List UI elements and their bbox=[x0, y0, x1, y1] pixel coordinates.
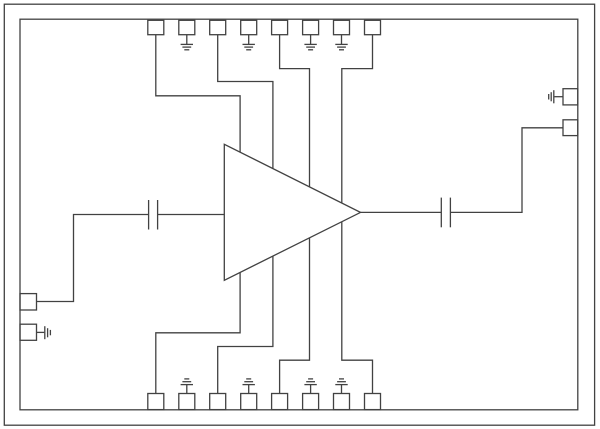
pad P10 bbox=[334, 394, 350, 410]
pad GND-L bbox=[20, 324, 37, 340]
wire bbox=[156, 35, 240, 153]
pad P11 bbox=[303, 394, 319, 410]
ground bbox=[37, 326, 51, 339]
wire bbox=[450, 128, 563, 213]
wire bbox=[218, 256, 273, 393]
pad P13 bbox=[241, 394, 257, 410]
wire bbox=[342, 222, 373, 394]
pad P3 bbox=[210, 20, 226, 34]
ground bbox=[304, 35, 316, 50]
wire bbox=[218, 35, 273, 169]
pad P6 bbox=[303, 20, 319, 34]
capacitor C2 bbox=[441, 198, 450, 228]
pad P1 bbox=[148, 20, 164, 34]
pad P9 bbox=[365, 394, 381, 410]
capacitor C1 bbox=[149, 200, 158, 230]
ground bbox=[335, 379, 347, 394]
pad IN bbox=[20, 294, 37, 310]
pad P5 bbox=[272, 20, 288, 34]
wire bbox=[156, 272, 240, 393]
ground bbox=[181, 35, 193, 50]
pad P4 bbox=[241, 20, 257, 34]
pad P15 bbox=[179, 394, 195, 410]
wire bbox=[361, 211, 442, 213]
pad P7 bbox=[334, 20, 350, 34]
pad P16 bbox=[148, 394, 164, 410]
ground bbox=[243, 35, 255, 50]
pad GND-R bbox=[563, 89, 578, 105]
ground bbox=[243, 379, 255, 394]
pad P14 bbox=[210, 394, 226, 410]
ground bbox=[549, 90, 563, 103]
op-amp U1 bbox=[224, 144, 360, 280]
wire bbox=[280, 35, 310, 187]
ground bbox=[304, 379, 316, 394]
pad P12 bbox=[272, 394, 288, 410]
ground bbox=[335, 35, 347, 50]
pad P8 bbox=[365, 20, 381, 34]
pad P2 bbox=[179, 20, 195, 34]
wire bbox=[37, 215, 149, 302]
ground bbox=[181, 379, 193, 394]
wire bbox=[280, 238, 310, 394]
wire bbox=[342, 35, 373, 203]
wire bbox=[158, 214, 225, 216]
pad OUT bbox=[563, 120, 578, 136]
